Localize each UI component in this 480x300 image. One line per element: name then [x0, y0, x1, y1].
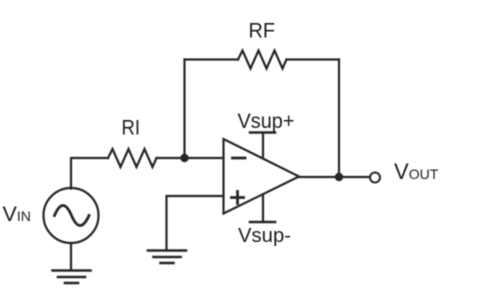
svg-text:Vsup-: Vsup-	[238, 224, 291, 247]
wire output	[299, 176, 369, 178]
wire input from source to op-amp inverting input	[71, 158, 224, 189]
svg-text:VIN: VIN	[3, 202, 31, 226]
op-amp plus sign	[232, 192, 244, 204]
ground (source)	[53, 271, 91, 284]
wire non-inverting input	[167, 196, 224, 251]
node A junction dot (inverting input)	[180, 154, 188, 162]
node output junction dot	[335, 173, 343, 181]
supply Vsup- terminal	[250, 195, 275, 223]
wire feedback left vertical	[183, 60, 185, 159]
output terminal open circle	[370, 173, 380, 183]
resistor RI	[108, 149, 157, 167]
wire source to ground	[70, 243, 72, 271]
wire feedback top	[185, 58, 340, 60]
op-amp U1 triangle	[224, 139, 300, 214]
svg-text:RF: RF	[249, 20, 276, 43]
voltage source VIN	[44, 188, 99, 243]
resistor RF	[238, 51, 287, 69]
svg-text:RI: RI	[122, 117, 141, 140]
ground (non-inverting input)	[148, 251, 186, 264]
op-amp minus sign	[233, 157, 246, 160]
wire feedback right vertical	[338, 60, 340, 178]
supply Vsup+ terminal	[250, 133, 275, 159]
svg-text:VOUT: VOUT	[394, 159, 439, 184]
svg-text:Vsup+: Vsup+	[238, 110, 295, 133]
